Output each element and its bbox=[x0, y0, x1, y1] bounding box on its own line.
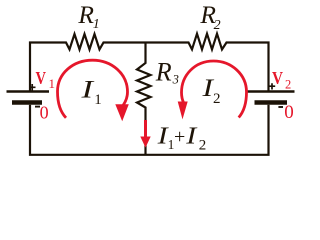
svg-text:3: 3 bbox=[172, 73, 179, 87]
mesh current loop I1 (red, clockwise) bbox=[58, 60, 128, 118]
battery V1 plus sign bbox=[29, 84, 36, 91]
wire bottom rail bbox=[30, 105, 269, 155]
svg-text:2: 2 bbox=[285, 78, 291, 92]
mesh current loop I2 (red, counterclockwise) bbox=[182, 61, 247, 118]
battery V2 minus sign bbox=[278, 106, 283, 108]
svg-text:0: 0 bbox=[284, 102, 294, 123]
svg-text:+: + bbox=[174, 126, 185, 148]
svg-text:I: I bbox=[80, 77, 95, 104]
battery V1 top plate bbox=[7, 90, 50, 92]
wire top rail with R1 and R2 zigzags bbox=[30, 34, 269, 91]
battery V2 plus sign bbox=[269, 83, 275, 89]
svg-text:1: 1 bbox=[94, 92, 102, 108]
svg-text:V: V bbox=[36, 68, 47, 88]
wire middle branch with resistor R3 zigzag bbox=[137, 43, 151, 155]
arrowhead I2 bbox=[178, 102, 188, 120]
svg-text:V: V bbox=[272, 68, 283, 88]
svg-text:0: 0 bbox=[40, 103, 49, 123]
svg-text:2: 2 bbox=[214, 18, 221, 33]
current arrow I1+I2 through R3 (red, down) bbox=[144, 120, 147, 138]
svg-text:2: 2 bbox=[213, 91, 221, 107]
arrowhead I1 bbox=[115, 104, 129, 121]
svg-text:R: R bbox=[155, 57, 172, 86]
battery V1 bottom plate bbox=[12, 100, 42, 105]
battery V1 minus sign bbox=[35, 106, 40, 108]
battery V2 top plate bbox=[247, 90, 295, 92]
battery V2 bottom plate bbox=[255, 100, 288, 105]
svg-text:1: 1 bbox=[93, 17, 100, 32]
svg-text:I: I bbox=[185, 123, 198, 149]
svg-text:2: 2 bbox=[199, 138, 207, 154]
svg-text:1: 1 bbox=[49, 76, 56, 91]
